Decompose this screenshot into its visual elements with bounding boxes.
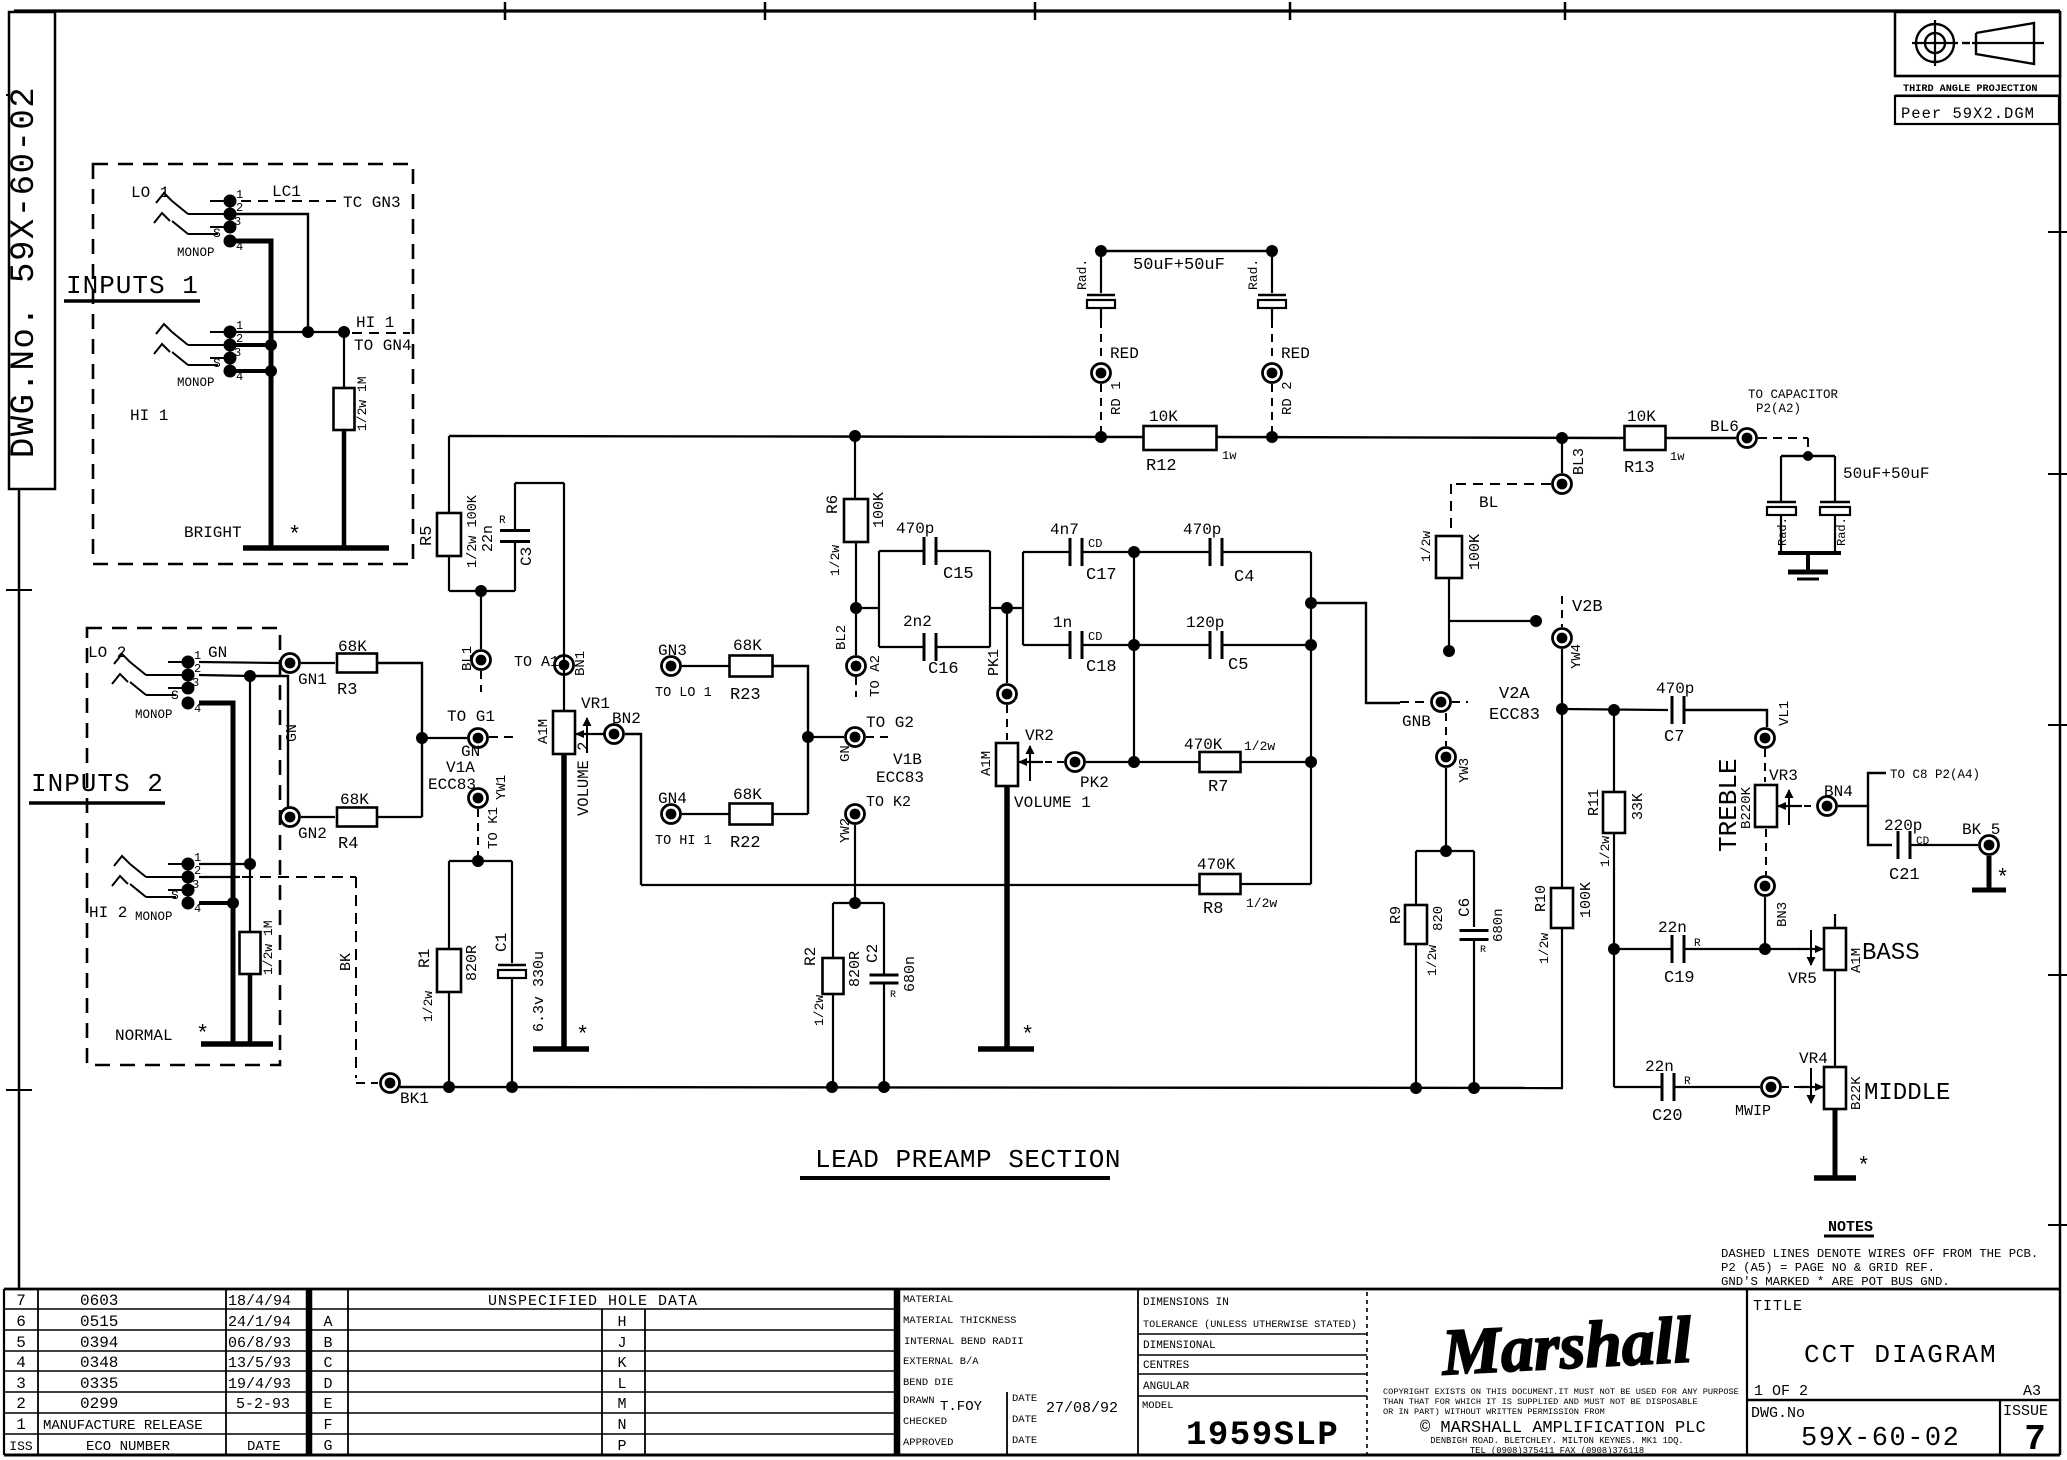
svg-text:820: 820 (1431, 906, 1447, 931)
dimensions column rows (1138, 1333, 1367, 1335)
resistor R6 100K (854, 436, 856, 499)
svg-text:1: 1 (16, 1416, 26, 1434)
wire VR4 ground (heavy) (1833, 1109, 1838, 1176)
title block divider (1746, 1289, 1748, 1455)
svg-text:S: S (171, 688, 179, 703)
svg-text:3: 3 (192, 676, 199, 690)
revision table grid (3, 1289, 5, 1455)
svg-text:GN: GN (838, 745, 854, 762)
svg-text:R: R (1480, 945, 1486, 956)
svg-text:R4: R4 (338, 835, 358, 854)
pad BL1 (472, 651, 491, 670)
svg-text:GN: GN (208, 644, 227, 662)
wire BK5 ground (heavy) (1987, 856, 1992, 888)
svg-text:ECO NUMBER: ECO NUMBER (86, 1439, 171, 1455)
svg-text:VR4: VR4 (1799, 1050, 1828, 1068)
svg-text:*: * (1021, 1023, 1034, 1048)
wire BL1 pad stem (480, 591, 482, 649)
capacitor C7 470p (1671, 696, 1674, 724)
node V1B grid junction (802, 731, 814, 743)
svg-text:3: 3 (16, 1375, 26, 1393)
wire BN4 down to C21 (1868, 806, 1892, 845)
svg-text:13/5/93: 13/5/93 (228, 1355, 291, 1372)
title strip top border (4, 1288, 2060, 1291)
svg-text:B: B (323, 1335, 332, 1352)
svg-text:BN2: BN2 (612, 710, 641, 728)
wire BL dashed link (1451, 483, 1551, 485)
potentiometer VR4 MIDDLE B22K (1824, 1067, 1846, 1109)
wire R23 to grid node (773, 666, 808, 814)
svg-text:C1: C1 (493, 933, 511, 952)
resistor R11 33K (1613, 710, 1615, 792)
svg-text:Rad.: Rad. (1075, 259, 1090, 290)
svg-text:C15: C15 (943, 565, 974, 584)
svg-text:0515: 0515 (80, 1313, 118, 1331)
svg-text:PK2: PK2 (1080, 774, 1109, 792)
svg-text:VR2: VR2 (1025, 727, 1054, 745)
ground bar BRIGHT (pot bus) (243, 545, 389, 551)
svg-text:C19: C19 (1664, 969, 1695, 988)
svg-text:BEND DIE: BEND DIE (903, 1377, 953, 1389)
wire R5/C3 bottom bracket (449, 590, 515, 592)
svg-text:VR3: VR3 (1769, 767, 1798, 785)
svg-text:ISSUE: ISSUE (2003, 1403, 2048, 1420)
wire long row BN2 to R8 (641, 884, 1200, 886)
capacitor C21 220p (1897, 831, 1900, 859)
svg-text:R: R (890, 990, 896, 1001)
wire V2A anode column (1561, 649, 1563, 888)
svg-text:MATERIAL: MATERIAL (903, 1294, 953, 1306)
svg-text:A3: A3 (2023, 1383, 2041, 1400)
resistor R2 820R (832, 903, 834, 958)
svg-text:7: 7 (16, 1292, 26, 1310)
wire R4 to grid node (377, 816, 422, 818)
wire LO2 pin2 to GN2 (199, 675, 250, 676)
INPUTS 2 dashed enclosure (87, 628, 280, 1065)
capacitor C2 680n (883, 903, 885, 974)
issue box divider (1999, 1400, 2001, 1455)
svg-text:470K: 470K (1184, 736, 1223, 754)
svg-text:GN: GN (284, 724, 301, 742)
wire VR3 wiper dashed to BN4 (1804, 805, 1816, 807)
svg-text:MONOP: MONOP (177, 376, 215, 390)
svg-text:J: J (617, 1335, 626, 1352)
svg-text:5: 5 (16, 1334, 26, 1352)
pad GNB (1432, 693, 1451, 712)
wire V2 cathode bracket (1416, 850, 1474, 852)
pad BL2 (A2) (847, 657, 866, 676)
svg-text:CD: CD (1916, 836, 1930, 848)
svg-text:1w: 1w (1670, 450, 1685, 464)
wire BL2 dashed stub (855, 677, 857, 697)
svg-text:YW1: YW1 (494, 775, 510, 800)
wire BL2 stem (855, 608, 857, 655)
ground bar NORMAL (pot bus) (201, 1041, 273, 1047)
node grid branch terminal (1530, 615, 1542, 627)
svg-text:1/2w: 1/2w (1244, 739, 1275, 754)
wire GN3 to R23 (682, 665, 730, 667)
svg-text:TC GN3: TC GN3 (343, 194, 401, 212)
svg-text:TO HI 1: TO HI 1 (655, 834, 712, 849)
svg-text:TEL (0908)375411 FAX (0908)376: TEL (0908)375411 FAX (0908)376118 (1470, 1446, 1644, 1456)
wire HI1 pin4 (heavy) (230, 369, 271, 373)
svg-text:INPUTS 1: INPUTS 1 (66, 271, 199, 301)
wire HI1 pin2 (heavy) (230, 343, 271, 347)
svg-text:TO K2: TO K2 (866, 794, 911, 811)
svg-text:VOLUME 1: VOLUME 1 (1014, 794, 1091, 812)
svg-text:C18: C18 (1086, 658, 1117, 677)
svg-text:1/2w 1M: 1/2w 1M (261, 920, 276, 975)
wire K2 to R2/C2 bracket (854, 825, 856, 903)
wire GN4 to R22 (682, 813, 730, 815)
svg-text:TITLE: TITLE (1753, 1298, 1803, 1315)
resistor R13 10K 1w (1625, 426, 1666, 450)
wire GNB dashed to YW3 (1445, 713, 1447, 746)
svg-text:68K: 68K (338, 638, 367, 656)
filename box Peer 59X2.DGM (1895, 96, 2059, 124)
resistor 1M bright input (343, 332, 345, 388)
svg-text:BN1: BN1 (573, 651, 589, 676)
svg-text:BL6: BL6 (1710, 418, 1739, 436)
pad BK 5 (1980, 836, 1999, 855)
node HI 1 junction (338, 326, 350, 338)
svg-text:1 OF 2: 1 OF 2 (1754, 1383, 1808, 1400)
pad YW4 (1553, 629, 1572, 648)
node BL1 junction (475, 585, 487, 597)
svg-text:470p: 470p (1656, 680, 1694, 698)
svg-text:120p: 120p (1186, 614, 1224, 632)
wire VR1 bottom to pot ground (heavy) (561, 754, 567, 1048)
svg-text:CHECKED: CHECKED (903, 1416, 947, 1428)
svg-text:59X-60-02: 59X-60-02 (1801, 1424, 1960, 1454)
pad PK1 (998, 685, 1017, 704)
potentiometer VR3 TREBLE B220K (1755, 785, 1777, 827)
svg-text:50uF+50uF: 50uF+50uF (1843, 465, 1929, 483)
wire RD2 pad to trunk (dashed) (1271, 384, 1273, 431)
node C18/C5 junction (1128, 639, 1140, 651)
node 1M tap (244, 858, 256, 870)
svg-text:820R: 820R (464, 945, 481, 981)
capacitor C16 2n2 (879, 646, 924, 648)
title strip bottom border (4, 1454, 2060, 1457)
jack J1 LO 1 (188, 213, 230, 215)
svg-text:68K: 68K (733, 786, 762, 804)
svg-text:VR5: VR5 (1788, 970, 1817, 988)
capacitor C3 22n (514, 483, 516, 530)
svg-text:MONOP: MONOP (135, 708, 173, 722)
svg-text:1/2w: 1/2w (1598, 836, 1613, 867)
svg-text:1959SLP: 1959SLP (1186, 1417, 1339, 1455)
svg-text:R1: R1 (416, 949, 434, 968)
svg-text:MANUFACTURE RELEASE: MANUFACTURE RELEASE (43, 1418, 203, 1434)
wire BN4 to C21 branch (1838, 773, 1886, 806)
svg-text:NOTES: NOTES (1828, 1219, 1873, 1236)
node C7/R11 tap (1556, 703, 1568, 715)
svg-text:B220K: B220K (1739, 786, 1755, 829)
svg-text:1: 1 (236, 188, 243, 202)
node RD2 tap (1266, 431, 1278, 443)
svg-text:ECC83: ECC83 (428, 776, 476, 794)
date sub-column (1006, 1392, 1008, 1455)
third angle projection circle symbol (1916, 24, 1954, 62)
ground bar BK5 (pot bus) (1972, 888, 2006, 893)
svg-text:R: R (499, 515, 506, 527)
resistor R9 820 (1415, 851, 1417, 905)
svg-text:R12: R12 (1146, 457, 1177, 476)
svg-text:DIMENSIONS IN: DIMENSIONS IN (1143, 1297, 1229, 1309)
node LO2 pin2 junction (244, 670, 256, 682)
capacitor C20 22n (1661, 1073, 1664, 1101)
svg-text:*: * (576, 1023, 589, 1048)
svg-text:K: K (617, 1355, 626, 1372)
node bass row junction (1759, 943, 1771, 955)
resistor R12 10K 1w (1144, 426, 1217, 450)
svg-text:CCT DIAGRAM: CCT DIAGRAM (1804, 1340, 1998, 1370)
wire to GN2 pad (250, 676, 288, 807)
wire stack output to GNB (1311, 603, 1400, 703)
svg-text:BL: BL (1479, 494, 1498, 512)
svg-text:1/2w 100K: 1/2w 100K (466, 494, 481, 568)
wiper arrow VR4 (1799, 1086, 1824, 1088)
wire HI2 pin1 row (199, 863, 250, 865)
svg-text:HI 1: HI 1 (130, 407, 168, 425)
wire VR5 to VR4 (1834, 970, 1836, 1067)
svg-text:GN2: GN2 (298, 825, 327, 843)
svg-text:18/4/94: 18/4/94 (228, 1293, 291, 1310)
svg-text:A1M: A1M (979, 751, 995, 776)
wire anode column A1 (563, 483, 565, 711)
wire filter cap common (heavy) (1778, 551, 1841, 555)
svg-text:Marshall: Marshall (1439, 1303, 1694, 1389)
wire VR1 wiper dashed to BN2 (600, 733, 604, 735)
svg-text:1: 1 (194, 649, 201, 663)
wire LO2 pin1 to GN1 (199, 662, 279, 663)
pad YW1 (K1) (469, 789, 488, 808)
svg-text:R7: R7 (1208, 778, 1228, 797)
svg-text:10K: 10K (1149, 408, 1178, 426)
wire HI2 pin4 (heavy) (199, 901, 233, 905)
wire PK1 stem (1006, 608, 1008, 683)
sheet border top edge (14, 9, 2060, 12)
svg-text:TO CAPACITOR: TO CAPACITOR (1748, 388, 1839, 402)
svg-text:BRIGHT: BRIGHT (184, 524, 242, 542)
resistor R10 100K (1551, 888, 1573, 928)
svg-text:*: * (196, 1022, 209, 1047)
svg-text:1/2w: 1/2w (1537, 933, 1552, 964)
svg-text:V2B: V2B (1572, 598, 1603, 617)
potentiometer VR1 VOLUME 2 A1M (553, 711, 575, 754)
svg-text:OR IN PART) WITHOUT WRITTEN PE: OR IN PART) WITHOUT WRITTEN PERMISSION F… (1383, 1407, 1605, 1417)
pad MWIP (1762, 1078, 1781, 1097)
svg-text:C4: C4 (1234, 568, 1254, 587)
svg-text:INPUTS 2: INPUTS 2 (31, 769, 164, 799)
wire VR2 wiper dashed to PK2 (1045, 761, 1064, 763)
wire HT supply trunk (449, 436, 1144, 437)
jack J4 HI 2 (146, 876, 188, 878)
svg-text:BN4: BN4 (1824, 783, 1853, 801)
svg-text:1/2w: 1/2w (828, 545, 843, 576)
svg-text:BL1: BL1 (460, 646, 476, 671)
wire C15/C16 output bracket (989, 551, 991, 647)
svg-text:DRAWN: DRAWN (903, 1395, 935, 1407)
svg-text:ECC83: ECC83 (1489, 706, 1540, 725)
svg-text:220p: 220p (1884, 817, 1922, 835)
wire C20 to MWIP (1674, 1086, 1760, 1088)
svg-text:P: P (617, 1438, 626, 1455)
svg-text:0348: 0348 (80, 1354, 118, 1372)
node R7 row junction (1128, 756, 1140, 768)
svg-text:V1A: V1A (446, 759, 475, 777)
jack J3 LO 2 (146, 674, 188, 676)
wire HI2 pin2 stub (199, 876, 240, 878)
potentiometer VR2 VOLUME 1 A1M (996, 743, 1018, 786)
svg-text:EXTERNAL B/A: EXTERNAL B/A (903, 1356, 979, 1368)
capacitor C6 680n (1473, 851, 1475, 927)
svg-text:TO G1: TO G1 (447, 708, 495, 726)
svg-text:GN4: GN4 (658, 790, 687, 808)
potentiometer VR5 BASS A1M (1834, 914, 1836, 928)
svg-text:YW3: YW3 (1457, 758, 1473, 783)
svg-text:MATERIAL THICKNESS: MATERIAL THICKNESS (903, 1315, 1016, 1327)
svg-text:DIMENSIONAL: DIMENSIONAL (1143, 1340, 1216, 1352)
svg-text:22n: 22n (1658, 919, 1687, 937)
pad BN2 (605, 725, 624, 744)
wire tone stack right bracket (1310, 552, 1312, 884)
pad GN3 (662, 657, 681, 676)
svg-text:*: * (1996, 866, 2009, 891)
svg-text:RED: RED (1110, 345, 1139, 363)
resistor R7 470K (1134, 761, 1200, 763)
pad BK1 (381, 1074, 400, 1093)
wire C21 to BK5 (1910, 844, 1978, 846)
resistor 1M normal input (249, 864, 251, 932)
svg-text:MONOP: MONOP (135, 910, 173, 924)
svg-text:R10: R10 (1533, 885, 1550, 912)
wire YW1 to cathode bracket (dashed) (477, 809, 479, 855)
svg-text:R23: R23 (730, 686, 761, 705)
wire PK2 to R7 row (1086, 761, 1134, 763)
svg-text:0394: 0394 (80, 1334, 118, 1352)
junction node on HI1 row (302, 326, 314, 338)
capacitor RD2 50uF (1271, 251, 1273, 293)
capacitor RD1 50uF (1100, 251, 1102, 293)
wire vertical GN2-1M (249, 676, 251, 864)
wire LO1 pin2 to HI1 node (230, 214, 308, 332)
svg-text:S: S (213, 356, 221, 371)
svg-text:MIDDLE: MIDDLE (1864, 1080, 1950, 1107)
svg-text:1n: 1n (1053, 614, 1072, 632)
svg-text:DASHED LINES DENOTE WIRES OFF: DASHED LINES DENOTE WIRES OFF FROM THE P… (1721, 1247, 2038, 1261)
svg-text:1/2w: 1/2w (421, 991, 436, 1022)
svg-text:BL2: BL2 (834, 625, 850, 650)
node grid lower terminal (1443, 645, 1455, 657)
svg-text:HI 2: HI 2 (89, 904, 127, 922)
wire BK dash-dot to BK1 (242, 876, 356, 878)
svg-text:APPROVED: APPROVED (903, 1437, 953, 1449)
svg-text:DATE: DATE (1012, 1393, 1037, 1405)
resistor R8 470K (1200, 874, 1241, 894)
resistor R5 100K (448, 436, 450, 513)
svg-text:100K: 100K (1467, 534, 1484, 570)
svg-text:1w: 1w (1222, 449, 1237, 463)
svg-text:Rad.: Rad. (1246, 259, 1261, 290)
svg-text:P2(A2): P2(A2) (1756, 402, 1801, 416)
svg-text:BASS: BASS (1862, 940, 1920, 967)
resistor R23 68K (730, 656, 773, 677)
wire anode row to C7 (1562, 709, 1668, 710)
wire LO1 pin1 dashed to TC GN3 (241, 200, 338, 202)
svg-text:Peer 59X2.DGM: Peer 59X2.DGM (1901, 105, 2035, 123)
pad GN1 (281, 654, 300, 673)
svg-text:C17: C17 (1086, 566, 1117, 585)
pad BL3 (1553, 475, 1572, 494)
svg-text:680n: 680n (1491, 908, 1507, 942)
svg-text:DATE: DATE (247, 1439, 281, 1455)
svg-text:C20: C20 (1652, 1107, 1683, 1126)
wire C7 to VL1 (1684, 710, 1767, 727)
wire BN2 to R8 row (625, 734, 641, 885)
svg-text:1/2w: 1/2w (1246, 896, 1277, 911)
capacitor C1 330u (511, 861, 513, 963)
wire VR2 bottom ground (heavy) (1004, 786, 1010, 1048)
svg-text:S: S (213, 226, 221, 241)
wire R3 to V1A grid node (377, 663, 422, 817)
svg-text:YW4: YW4 (1569, 644, 1585, 669)
pad RD 2 (1263, 364, 1282, 383)
svg-text:R11: R11 (1586, 789, 1603, 816)
capacitor C15 470p (878, 551, 880, 647)
svg-text:LEAD PREAMP SECTION: LEAD PREAMP SECTION (815, 1145, 1121, 1175)
third angle projection symbol box (1895, 12, 2060, 76)
svg-text:*: * (288, 523, 301, 548)
ground chassis (filter cap) (1788, 570, 1828, 575)
wire G2 dashed stub (866, 736, 888, 738)
node R6 supply tap (849, 430, 861, 442)
node R11 tap (1608, 704, 1620, 716)
svg-text:P2 (A5) = PAGE NO & GRID REF.: P2 (A5) = PAGE NO & GRID REF. (1721, 1261, 1935, 1275)
title block dwg row divider (1747, 1399, 2060, 1402)
svg-text:YW2: YW2 (838, 818, 854, 843)
svg-text:C7: C7 (1664, 728, 1684, 747)
svg-text:M: M (617, 1396, 626, 1413)
svg-text:100K: 100K (1578, 882, 1595, 918)
hole data heavy divider (894, 1289, 901, 1455)
node C17/C4 junction (1128, 546, 1140, 558)
pad YW3 (1437, 748, 1456, 767)
node BL3 tap (1556, 432, 1568, 444)
svg-text:10K: 10K (1627, 408, 1656, 426)
svg-text:2: 2 (16, 1395, 26, 1413)
svg-text:Rad.: Rad. (1835, 517, 1849, 546)
svg-text:A: A (323, 1314, 332, 1331)
svg-text:680n: 680n (902, 956, 919, 992)
svg-text:C3: C3 (518, 547, 536, 566)
svg-text:C16: C16 (928, 660, 959, 679)
svg-text:THAN THAT FOR WHICH IT IS SUPP: THAN THAT FOR WHICH IT IS SUPPLIED AND M… (1383, 1397, 1698, 1407)
pad BL6 (1738, 429, 1757, 448)
wire V2B dashed stem (1561, 596, 1563, 627)
svg-text:68K: 68K (340, 791, 369, 809)
svg-text:TO K1: TO K1 (486, 807, 502, 849)
svg-text:TOLERANCE (UNLESS UTHERWISE ST: TOLERANCE (UNLESS UTHERWISE STATED) (1143, 1319, 1357, 1331)
wiper arrow VR2 (1018, 761, 1043, 763)
capacitor C5 120p (1134, 644, 1210, 646)
svg-text:TO GN4: TO GN4 (354, 337, 412, 355)
resistor R3 68K (337, 654, 377, 673)
svg-text:MODEL: MODEL (1142, 1400, 1174, 1412)
capacitor 50uF+50uF (RD pair) top link (1101, 250, 1272, 252)
svg-text:R2: R2 (802, 947, 820, 966)
